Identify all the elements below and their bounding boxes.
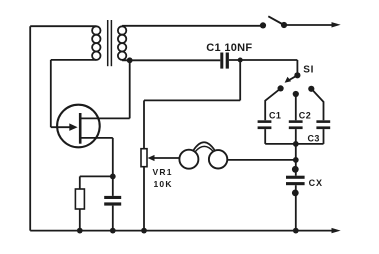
wire resistor top lead [79, 176, 81, 189]
node S1 pole [294, 72, 300, 78]
wire secondary bottom lead to C1 [122, 59, 220, 61]
capacitor C2 plates [289, 120, 303, 129]
headphones left earpiece [179, 150, 198, 169]
wire drain riser [129, 60, 131, 118]
capacitor CX plates [286, 176, 305, 186]
node junction C1/VR1 tap [238, 58, 243, 63]
capacitor bypass plates [104, 196, 121, 206]
wire C2 stub [295, 129, 297, 144]
capacitor CX bottom terminal [292, 190, 299, 197]
wire capacitor bank bus [265, 143, 323, 145]
node junction secondary/drain [127, 57, 133, 63]
wire gate drop [50, 60, 52, 127]
svg-text:SI: SI [303, 65, 314, 76]
wire resistor bottom lead [79, 209, 81, 231]
potentiometer VR1 body [141, 149, 147, 167]
wire CX bottom lead [295, 185, 297, 230]
headphones headband [194, 142, 215, 150]
wire secondary top lead to switch [122, 25, 263, 27]
node switch right [281, 22, 287, 28]
wire source drop [112, 138, 114, 196]
transistor Q1 [57, 105, 100, 148]
wire contact3 to C3 bank [311, 89, 323, 121]
wire bypass cap bottom lead [112, 206, 114, 231]
wire VR1 top lead [143, 100, 145, 148]
svg-text:C1: C1 [269, 111, 281, 121]
wire VR1 wiper [154, 157, 180, 159]
top wire arrowhead [332, 22, 341, 27]
node bank bus junction [293, 141, 299, 147]
svg-text:C1 10NF: C1 10NF [206, 42, 252, 54]
node CX/bus [293, 228, 299, 234]
transformer T1 core [108, 20, 112, 66]
S1 wiper arm [289, 75, 298, 80]
wire tap drop [239, 60, 241, 100]
wire switch to arrow [284, 24, 332, 26]
svg-text:C3: C3 [308, 134, 320, 144]
svg-text:C2: C2 [299, 111, 311, 121]
switch blade [268, 16, 284, 25]
node VR1/bus [141, 228, 147, 234]
wire contact2 to C2 bank [295, 94, 297, 120]
node switch left [260, 22, 266, 28]
svg-text:VR1: VR1 [153, 167, 173, 177]
wire contact1 to C1 bank [265, 88, 280, 120]
capacitor CX top terminal [292, 166, 299, 173]
node resistor/bus [77, 228, 83, 234]
wire C1 stub [264, 129, 266, 144]
wire headphones to CX node [227, 159, 295, 161]
node S1 contact 3 [308, 86, 314, 92]
bottom bus arrowhead [332, 228, 341, 233]
wire bank to CX [295, 144, 297, 176]
wire gate lead into Q1 [51, 126, 70, 128]
transformer T1 secondary winding [118, 26, 126, 60]
wire to resistor [80, 175, 113, 177]
svg-text:CX: CX [309, 178, 323, 188]
wire drain lead [81, 117, 130, 119]
wire source lead [81, 137, 113, 139]
S1 wiper arrowhead [285, 77, 292, 83]
headphones right earpiece [209, 150, 227, 168]
node S1 contact 1 [278, 85, 284, 91]
wire C1 to S1 corner [229, 59, 298, 61]
capacitor C1 10NF plates [220, 53, 229, 69]
wire VR1 bottom lead [143, 167, 145, 231]
capacitor C3 plates [316, 120, 330, 129]
wire tap horizontal to VR1 [144, 99, 240, 101]
wire S1 pole drop [296, 60, 298, 75]
capacitor C1 plates [258, 120, 272, 129]
wire left vertical rail [29, 26, 31, 230]
resistor R1 [75, 189, 84, 209]
svg-text:10K: 10K [154, 179, 173, 189]
node junction source/R [110, 174, 116, 180]
VR1 wiper arrowhead [148, 155, 155, 161]
wire top-left horizontal to transformer primary [30, 25, 96, 27]
wire primary bottom lead [51, 59, 97, 61]
node S1 contact 2 [293, 91, 299, 97]
transformer T1 primary winding [92, 26, 100, 60]
node headphones/CX [293, 157, 299, 163]
wire C3 stub [323, 129, 325, 144]
node bypass cap/bus [110, 228, 116, 234]
wire bottom bus [30, 230, 332, 232]
